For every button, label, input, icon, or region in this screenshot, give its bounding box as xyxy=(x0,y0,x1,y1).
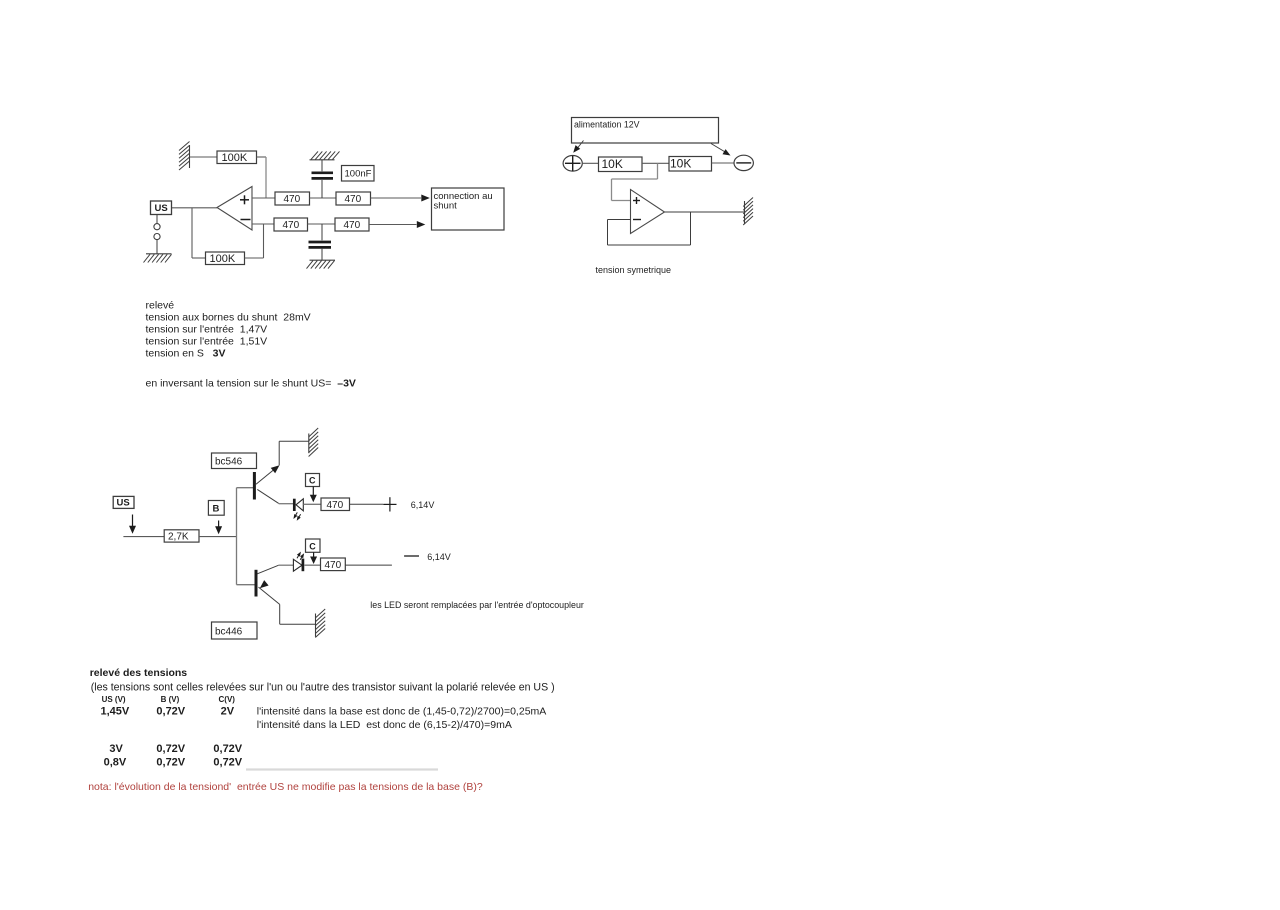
arrow to shunt top xyxy=(421,195,430,202)
U2 plus input mark xyxy=(633,200,640,202)
input wire to R9 xyxy=(123,536,164,538)
label C box bottom xyxy=(306,539,321,552)
U2 output wire xyxy=(665,211,745,213)
label box 100nF xyxy=(342,166,375,182)
U2 minus input mark xyxy=(633,219,641,221)
svg-text:6,14V: 6,14V xyxy=(427,552,451,562)
ground G5 xyxy=(315,614,317,637)
C bottom down arrow xyxy=(313,552,315,557)
base bus wire xyxy=(236,488,238,585)
resistor R6 470 xyxy=(335,218,369,231)
node US input wire xyxy=(172,207,218,209)
wire R9 to base bus xyxy=(199,536,237,538)
wire R4 to arrow xyxy=(371,197,422,199)
svg-text:tension en S 3V: tension en S 3V xyxy=(146,348,226,360)
Q1 emitter to ground xyxy=(256,468,277,485)
US down arrow xyxy=(132,515,134,527)
plus polarity mark xyxy=(383,503,396,505)
svg-text:100K: 100K xyxy=(222,152,248,164)
svg-text:470: 470 xyxy=(345,194,362,205)
wire divider midpoint to U2 plus input xyxy=(657,163,659,179)
connector circle c1 xyxy=(156,215,158,224)
svg-text:0,72V: 0,72V xyxy=(156,743,185,755)
label box bc446 xyxy=(212,622,258,639)
capacitor C2 xyxy=(321,224,323,240)
resistor R7 10K xyxy=(599,157,643,172)
wire U1 -output xyxy=(252,223,274,225)
label B box xyxy=(208,501,224,516)
arrow alim to minus terminal xyxy=(711,144,726,153)
svg-text:0,8V: 0,8V xyxy=(104,757,127,769)
resistor R9 2,7K xyxy=(164,530,199,542)
minus terminal xyxy=(734,155,753,170)
svg-text:100K: 100K xyxy=(210,253,236,265)
minus polarity mark xyxy=(404,555,419,557)
LED D2 xyxy=(293,559,302,571)
resistor R5 470 xyxy=(274,218,308,231)
svg-text:470: 470 xyxy=(327,500,344,511)
connection au shunt box xyxy=(432,188,505,230)
alimentation 12V box xyxy=(572,118,719,144)
resistor R4 470 xyxy=(336,192,371,205)
resistor R11 470 xyxy=(321,558,346,571)
svg-text:100nF: 100nF xyxy=(345,168,372,179)
svg-text:2V: 2V xyxy=(221,706,235,718)
resistor R3 470 xyxy=(275,192,310,205)
capacitor C1 ground xyxy=(310,159,335,161)
svg-text:l'intensité dans la LED est d: l'intensité dans la LED est donc de (6,1… xyxy=(257,719,512,731)
svg-text:B: B xyxy=(213,504,220,515)
svg-text:bc546: bc546 xyxy=(215,456,243,467)
C top down arrow xyxy=(312,487,314,496)
transistor Q1 base bar xyxy=(253,472,256,500)
plus terminal xyxy=(563,156,582,172)
B down arrow xyxy=(218,521,220,528)
svg-text:2,7K: 2,7K xyxy=(168,532,189,543)
U1 minus input mark xyxy=(241,219,251,221)
svg-text:en inversant la tension sur le: en inversant la tension sur le shunt US=… xyxy=(146,378,356,390)
ground G1 top-left xyxy=(189,145,191,168)
svg-text:470: 470 xyxy=(284,194,301,205)
LED D1 emission arrows xyxy=(294,512,297,517)
connector circle c2 xyxy=(154,234,160,240)
svg-text:10K: 10K xyxy=(670,157,691,171)
US source box xyxy=(151,201,172,215)
wire R7 to R8 xyxy=(642,162,669,164)
wire R11 right xyxy=(345,564,392,566)
capacitor C2 ground xyxy=(310,259,336,261)
Q2 collector wire xyxy=(257,565,278,574)
wire R10 to plus mark xyxy=(350,503,384,505)
LED D1 xyxy=(293,499,296,511)
arrow alim to plus terminal xyxy=(578,141,584,149)
svg-text:tension sur l'entrée 1,51V: tension sur l'entrée 1,51V xyxy=(146,336,268,348)
wire U1 +output xyxy=(252,197,275,199)
wire G1 to R1 xyxy=(190,156,217,158)
svg-text:C: C xyxy=(309,541,316,551)
svg-text:0,72V: 0,72V xyxy=(156,757,185,769)
wire R3 to R4 xyxy=(310,197,337,199)
faint smudge line xyxy=(246,768,438,770)
wire R6 to arrow xyxy=(369,224,417,226)
svg-text:bc446: bc446 xyxy=(215,627,243,638)
svg-text:0,72V: 0,72V xyxy=(156,706,185,718)
svg-text:shunt: shunt xyxy=(434,201,458,212)
svg-text:tension aux bornes du shunt 2: tension aux bornes du shunt 28mV xyxy=(146,312,311,324)
svg-text:tension sur l'entrée 1,47V: tension sur l'entrée 1,47V xyxy=(146,324,268,336)
svg-text:(les tensions sont celles rele: (les tensions sont celles relevées sur l… xyxy=(91,682,555,694)
svg-text:US (V): US (V) xyxy=(102,695,126,704)
U2 feedback wire xyxy=(608,219,631,221)
svg-text:0,72V: 0,72V xyxy=(213,743,242,755)
Q1 collector wire xyxy=(257,489,278,503)
svg-text:alimentation 12V: alimentation 12V xyxy=(574,120,640,130)
ground G3 xyxy=(744,201,746,224)
wire bus to Q2 base xyxy=(237,584,257,586)
wire plus to R7 xyxy=(582,162,598,164)
ground G4 xyxy=(308,434,310,454)
resistor R10 470 xyxy=(321,498,350,511)
svg-text:C: C xyxy=(309,476,316,486)
LED D2 emission arrows xyxy=(297,553,300,558)
label C box top xyxy=(306,474,320,487)
svg-text:nota: l'évolution de la tensio: nota: l'évolution de la tensiond' entrée… xyxy=(88,781,483,793)
resistor R8 10K xyxy=(669,157,712,172)
svg-text:relevé: relevé xyxy=(146,300,175,312)
svg-text:470: 470 xyxy=(283,220,300,231)
svg-text:1,45V: 1,45V xyxy=(101,706,130,718)
resistor R1 100K xyxy=(217,151,257,164)
svg-text:0,72V: 0,72V xyxy=(213,757,242,769)
svg-text:US: US xyxy=(155,203,168,214)
svg-text:B (V): B (V) xyxy=(161,695,180,704)
svg-text:l'intensité dans la base est d: l'intensité dans la base est donc de (1,… xyxy=(257,706,546,718)
svg-text:470: 470 xyxy=(325,560,342,571)
wire bus to Q1 base xyxy=(237,487,254,489)
svg-text:3V: 3V xyxy=(109,743,123,755)
feedback wire junction x192 xyxy=(191,208,193,258)
Q2 emitter to ground xyxy=(259,587,280,604)
ground G2 below US xyxy=(156,240,158,254)
wire R1 to +output node xyxy=(257,156,267,158)
wire R2 to -output node xyxy=(245,257,264,259)
op-amp U2 xyxy=(631,190,665,234)
op-amp U1 xyxy=(217,187,252,231)
transistor Q2 base bar xyxy=(255,570,258,597)
U1 plus input mark xyxy=(240,199,249,201)
svg-text:470: 470 xyxy=(344,220,361,231)
US source box 2 xyxy=(113,496,134,508)
wire R8 to minus terminal xyxy=(712,162,735,164)
svg-text:les LED seront remplacées par: les LED seront remplacées par l'entrée d… xyxy=(370,600,584,610)
svg-text:US: US xyxy=(117,498,130,509)
svg-text:tension symetrique: tension symetrique xyxy=(596,265,672,275)
label box bc546 xyxy=(212,453,257,469)
wire R5 to R6 xyxy=(308,223,336,225)
wire D1 to C arrow junction xyxy=(303,503,321,505)
resistor R2 100K xyxy=(206,252,245,265)
svg-text:relevé des tensions: relevé des tensions xyxy=(90,667,188,679)
arrow to shunt bottom xyxy=(417,221,426,228)
capacitor C1 100nF xyxy=(321,160,323,171)
wire D2 to R11 xyxy=(304,564,320,566)
svg-text:C(V): C(V) xyxy=(219,695,236,704)
svg-text:6,14V: 6,14V xyxy=(411,500,435,510)
svg-text:10K: 10K xyxy=(602,157,623,171)
